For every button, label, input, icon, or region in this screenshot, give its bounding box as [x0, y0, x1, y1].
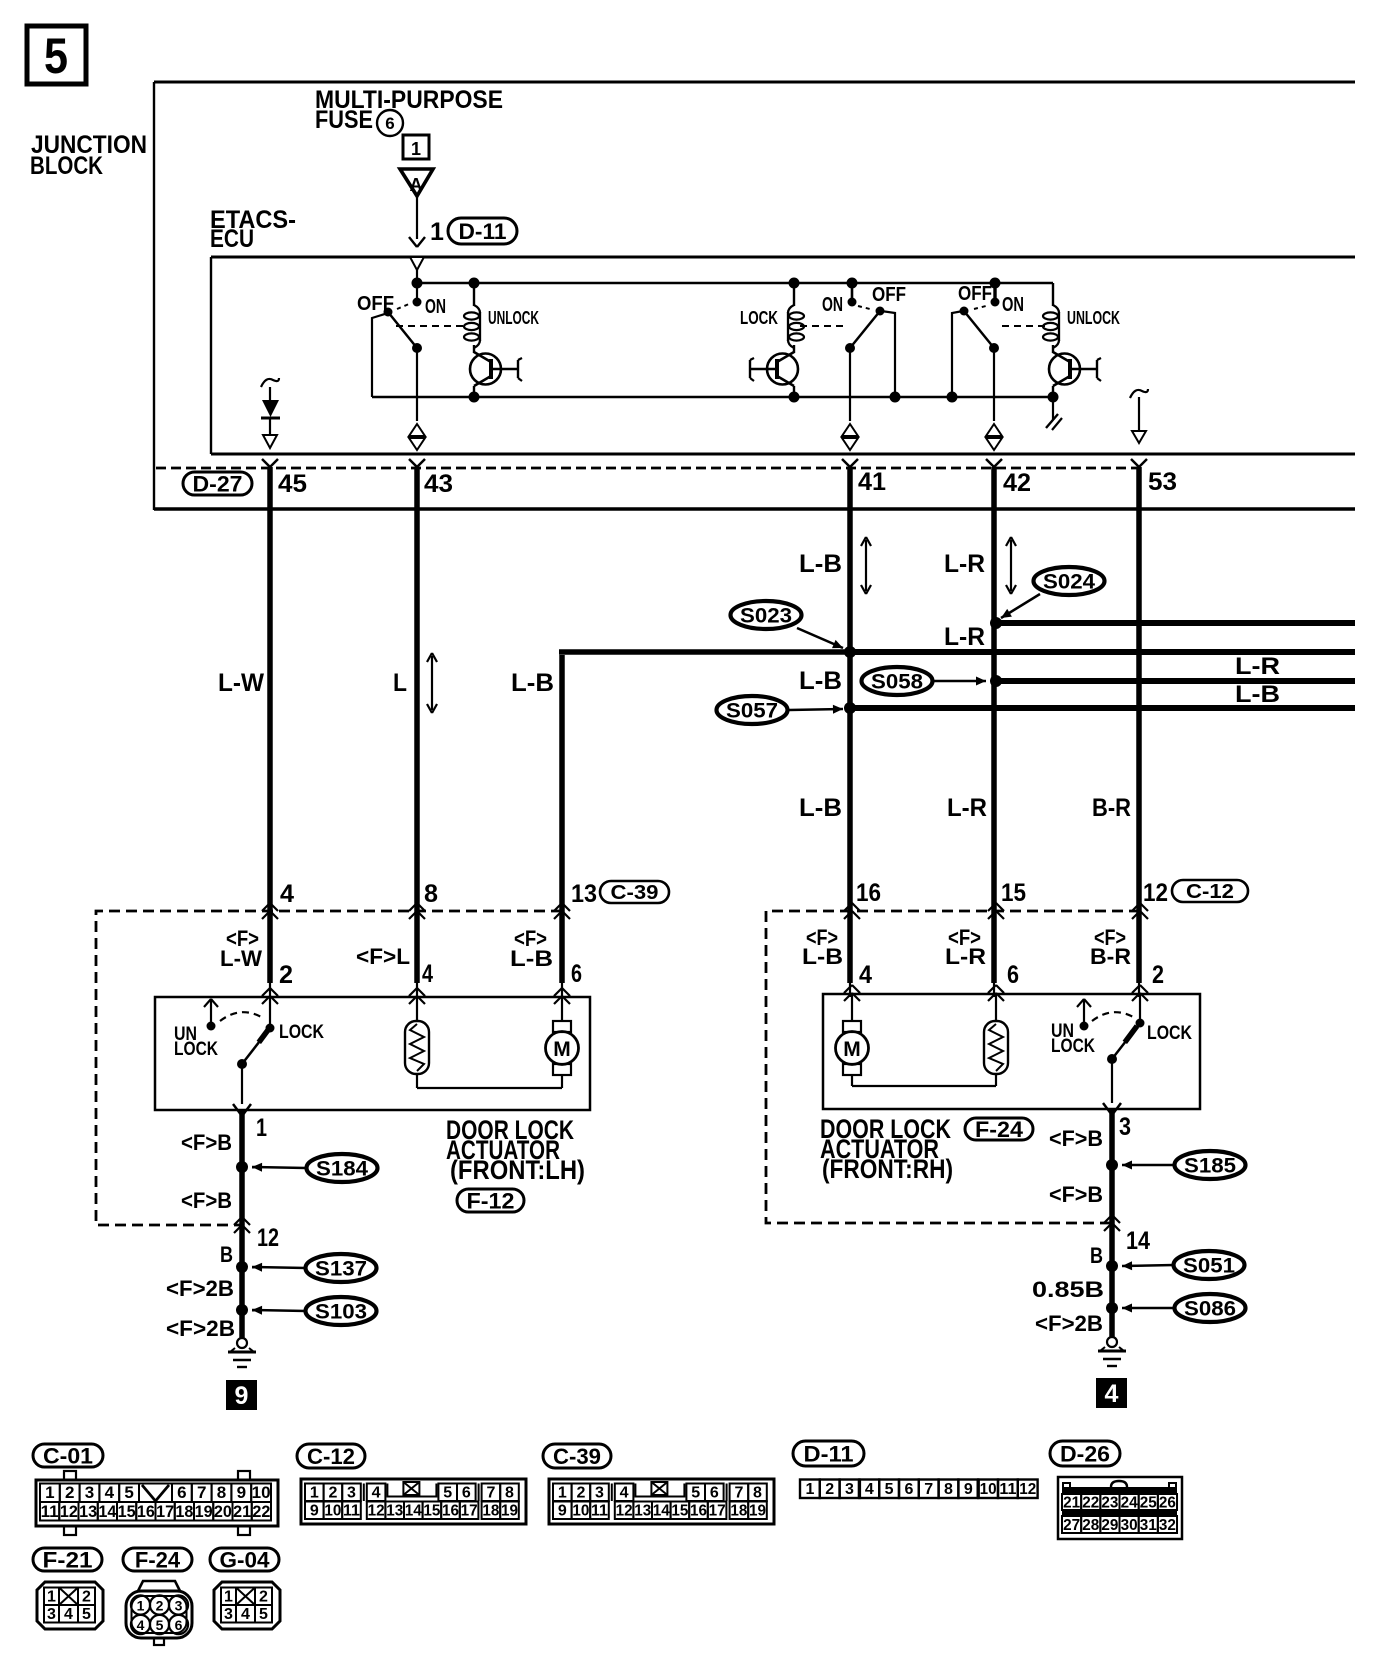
- svg-text:41: 41: [858, 468, 886, 496]
- svg-text:L-B: L-B: [799, 794, 842, 822]
- svg-text:S051: S051: [1183, 1255, 1235, 1278]
- svg-text:ON: ON: [1002, 294, 1024, 316]
- svg-text:LOCK: LOCK: [279, 1022, 324, 1043]
- svg-text:14: 14: [98, 1502, 117, 1521]
- svg-text:2: 2: [1152, 961, 1164, 989]
- svg-text:D-26: D-26: [1060, 1441, 1110, 1466]
- svg-text:5: 5: [156, 1617, 164, 1633]
- svg-text:24: 24: [1121, 1495, 1138, 1512]
- svg-text:8: 8: [944, 1481, 953, 1498]
- svg-text:3: 3: [85, 1483, 94, 1502]
- svg-text:3: 3: [595, 1485, 604, 1502]
- svg-text:ON: ON: [425, 296, 446, 318]
- svg-text:2: 2: [576, 1485, 585, 1502]
- svg-text:L-W: L-W: [218, 669, 264, 697]
- svg-text:13: 13: [571, 880, 597, 908]
- svg-text:5: 5: [124, 1483, 133, 1502]
- svg-text:5: 5: [885, 1481, 894, 1498]
- svg-text:17: 17: [709, 1503, 726, 1520]
- svg-text:10: 10: [980, 1481, 997, 1498]
- svg-text:17: 17: [156, 1502, 174, 1521]
- svg-text:G-04: G-04: [220, 1547, 271, 1572]
- svg-text:2: 2: [156, 1598, 164, 1614]
- svg-text:45: 45: [278, 470, 307, 498]
- svg-text:6: 6: [710, 1485, 719, 1502]
- svg-text:5: 5: [443, 1485, 452, 1502]
- svg-text:F-24: F-24: [975, 1117, 1024, 1142]
- svg-text:C-12: C-12: [307, 1444, 355, 1469]
- svg-text:D-27: D-27: [193, 471, 243, 496]
- svg-text:15: 15: [423, 1503, 440, 1520]
- svg-text:23: 23: [1101, 1495, 1118, 1512]
- svg-text:4: 4: [64, 1606, 73, 1623]
- svg-text:S086: S086: [1184, 1298, 1236, 1321]
- svg-text:29: 29: [1101, 1517, 1118, 1534]
- svg-text:0.85B: 0.85B: [1032, 1277, 1104, 1302]
- svg-text:<F>2B: <F>2B: [166, 1316, 235, 1341]
- svg-text:8: 8: [753, 1485, 762, 1502]
- svg-text:<F>2B: <F>2B: [166, 1276, 234, 1301]
- svg-text:LOCK: LOCK: [740, 308, 778, 328]
- svg-text:6: 6: [177, 1483, 186, 1502]
- svg-text:10: 10: [252, 1483, 271, 1502]
- svg-text:4: 4: [372, 1485, 381, 1502]
- svg-text:9: 9: [235, 1382, 249, 1410]
- svg-text:<F>2B: <F>2B: [1035, 1311, 1103, 1336]
- svg-text:11: 11: [999, 1481, 1016, 1498]
- svg-text:F-12: F-12: [467, 1188, 515, 1213]
- svg-text:8: 8: [217, 1483, 226, 1502]
- svg-text:L-B: L-B: [510, 946, 553, 971]
- svg-text:21: 21: [233, 1502, 251, 1521]
- svg-text:1: 1: [411, 139, 421, 159]
- svg-text:28: 28: [1082, 1517, 1099, 1534]
- svg-text:M: M: [843, 1038, 861, 1061]
- svg-text:7: 7: [197, 1483, 206, 1502]
- svg-text:BLOCK: BLOCK: [30, 152, 103, 180]
- svg-text:<F>B: <F>B: [181, 1130, 232, 1155]
- svg-text:F-24: F-24: [135, 1547, 181, 1572]
- svg-text:15: 15: [118, 1502, 136, 1521]
- svg-text:1: 1: [256, 1114, 267, 1142]
- svg-text:C-39: C-39: [553, 1444, 601, 1469]
- svg-text:LOCK: LOCK: [174, 1039, 218, 1060]
- svg-text:4: 4: [865, 1481, 874, 1498]
- svg-text:6: 6: [462, 1485, 471, 1502]
- svg-text:L-B: L-B: [799, 550, 842, 578]
- svg-text:6: 6: [385, 114, 394, 133]
- svg-text:4: 4: [620, 1485, 629, 1502]
- svg-text:14: 14: [405, 1503, 422, 1520]
- svg-text:8: 8: [424, 880, 438, 908]
- svg-text:D-11: D-11: [459, 219, 507, 244]
- svg-text:A: A: [410, 175, 423, 195]
- svg-text:13: 13: [386, 1503, 403, 1520]
- svg-text:7: 7: [924, 1481, 933, 1498]
- svg-text:3: 3: [845, 1481, 854, 1498]
- svg-text:11: 11: [343, 1503, 360, 1520]
- svg-text:16: 16: [690, 1503, 707, 1520]
- svg-text:1: 1: [47, 1589, 56, 1606]
- svg-text:1: 1: [310, 1485, 319, 1502]
- svg-text:15: 15: [1001, 879, 1026, 907]
- svg-text:L-B: L-B: [802, 944, 843, 969]
- svg-text:2: 2: [328, 1485, 337, 1502]
- svg-text:6: 6: [571, 960, 582, 988]
- svg-text:L-B: L-B: [1235, 681, 1280, 708]
- svg-text:30: 30: [1121, 1517, 1138, 1534]
- svg-text:43: 43: [424, 470, 453, 498]
- svg-text:L-B: L-B: [511, 669, 554, 697]
- svg-text:<F>B: <F>B: [1049, 1126, 1103, 1151]
- svg-text:4: 4: [422, 960, 433, 988]
- svg-text:1: 1: [137, 1598, 145, 1614]
- svg-text:<F>B: <F>B: [1049, 1182, 1103, 1207]
- svg-text:ECU: ECU: [210, 225, 254, 253]
- svg-text:UNLOCK: UNLOCK: [488, 308, 539, 328]
- svg-text:15: 15: [671, 1503, 688, 1520]
- svg-text:6: 6: [1007, 961, 1019, 989]
- svg-text:B-R: B-R: [1092, 794, 1131, 822]
- svg-text:9: 9: [237, 1483, 246, 1502]
- svg-text:12: 12: [1143, 879, 1168, 907]
- svg-text:16: 16: [856, 879, 881, 907]
- svg-text:16: 16: [137, 1502, 155, 1521]
- svg-text:S137: S137: [315, 1258, 367, 1281]
- svg-text:3: 3: [1119, 1113, 1131, 1141]
- svg-text:S057: S057: [726, 700, 778, 723]
- svg-text:2: 2: [82, 1589, 91, 1606]
- svg-text:5: 5: [82, 1606, 91, 1623]
- svg-text:13: 13: [634, 1503, 651, 1520]
- svg-text:12: 12: [1019, 1481, 1036, 1498]
- svg-text:4: 4: [105, 1483, 115, 1502]
- svg-text:L-R: L-R: [947, 794, 987, 822]
- svg-text:32: 32: [1159, 1517, 1176, 1534]
- svg-text:9: 9: [964, 1481, 973, 1498]
- svg-text:1: 1: [558, 1485, 567, 1502]
- svg-text:18: 18: [482, 1503, 499, 1520]
- svg-text:C-39: C-39: [611, 882, 659, 904]
- svg-text:2: 2: [825, 1481, 834, 1498]
- svg-text:9: 9: [310, 1503, 319, 1520]
- svg-text:L-B: L-B: [799, 667, 842, 695]
- svg-text:8: 8: [505, 1485, 514, 1502]
- svg-text:2: 2: [279, 961, 293, 989]
- svg-text:5: 5: [44, 28, 68, 84]
- svg-text:17: 17: [461, 1503, 478, 1520]
- svg-text:12: 12: [616, 1503, 633, 1520]
- svg-text:20: 20: [214, 1502, 232, 1521]
- svg-text:5: 5: [259, 1606, 268, 1623]
- svg-text:LOCK: LOCK: [1147, 1023, 1192, 1044]
- svg-text:18: 18: [175, 1502, 193, 1521]
- svg-text:14: 14: [653, 1503, 670, 1520]
- svg-text:11: 11: [41, 1502, 59, 1521]
- svg-text:<F>B: <F>B: [181, 1188, 232, 1213]
- svg-text:3: 3: [47, 1606, 56, 1623]
- svg-text:7: 7: [486, 1485, 495, 1502]
- svg-text:16: 16: [442, 1503, 459, 1520]
- svg-text:C-12: C-12: [1186, 881, 1234, 903]
- svg-text:B: B: [220, 1242, 233, 1267]
- svg-text:L-R: L-R: [1235, 653, 1280, 680]
- svg-text:ON: ON: [822, 294, 843, 316]
- svg-text:6: 6: [904, 1481, 913, 1498]
- svg-text:OFF: OFF: [872, 284, 906, 306]
- svg-text:6: 6: [175, 1617, 183, 1633]
- svg-text:27: 27: [1063, 1517, 1080, 1534]
- svg-text:4: 4: [859, 961, 872, 989]
- svg-text:(FRONT:LH): (FRONT:LH): [450, 1155, 585, 1185]
- svg-text:L-R: L-R: [944, 623, 985, 651]
- svg-text:4: 4: [1105, 1380, 1119, 1408]
- svg-text:3: 3: [175, 1598, 183, 1614]
- svg-text:S058: S058: [871, 671, 923, 694]
- svg-text:10: 10: [324, 1503, 341, 1520]
- svg-text:UNLOCK: UNLOCK: [1067, 308, 1120, 328]
- svg-text:OFF: OFF: [958, 283, 992, 305]
- svg-text:L: L: [393, 669, 407, 697]
- svg-text:2: 2: [259, 1589, 268, 1606]
- svg-text:S024: S024: [1043, 571, 1095, 594]
- svg-text:(FRONT:RH): (FRONT:RH): [822, 1154, 953, 1184]
- svg-text:M: M: [553, 1038, 571, 1061]
- svg-text:14: 14: [1126, 1227, 1150, 1255]
- svg-text:S184: S184: [316, 1158, 368, 1181]
- svg-text:25: 25: [1140, 1495, 1157, 1512]
- svg-text:1: 1: [45, 1483, 54, 1502]
- svg-text:L-W: L-W: [220, 946, 262, 971]
- svg-text:9: 9: [558, 1503, 567, 1520]
- svg-text:3: 3: [347, 1485, 356, 1502]
- svg-text:LOCK: LOCK: [1051, 1036, 1095, 1057]
- svg-text:19: 19: [195, 1502, 213, 1521]
- svg-text:S103: S103: [315, 1301, 367, 1324]
- svg-text:2: 2: [65, 1483, 74, 1502]
- svg-text:<F>L: <F>L: [356, 944, 410, 969]
- svg-text:19: 19: [501, 1503, 518, 1520]
- svg-text:18: 18: [730, 1503, 747, 1520]
- svg-text:4: 4: [280, 880, 294, 908]
- svg-text:12: 12: [60, 1502, 78, 1521]
- svg-text:1: 1: [224, 1589, 233, 1606]
- svg-text:4: 4: [137, 1617, 145, 1633]
- svg-text:26: 26: [1159, 1495, 1176, 1512]
- svg-text:21: 21: [1063, 1495, 1080, 1512]
- svg-text:B-R: B-R: [1090, 944, 1131, 969]
- svg-text:L-R: L-R: [945, 944, 986, 969]
- svg-text:1: 1: [430, 218, 444, 246]
- svg-text:D-11: D-11: [804, 1441, 854, 1466]
- svg-text:1: 1: [805, 1481, 814, 1498]
- svg-text:B: B: [1090, 1243, 1103, 1268]
- svg-text:FUSE: FUSE: [315, 106, 373, 134]
- svg-text:19: 19: [749, 1503, 766, 1520]
- svg-text:53: 53: [1148, 468, 1177, 496]
- svg-text:S023: S023: [740, 605, 792, 628]
- svg-text:13: 13: [79, 1502, 97, 1521]
- svg-text:11: 11: [591, 1503, 608, 1520]
- svg-text:4: 4: [241, 1606, 250, 1623]
- svg-text:22: 22: [252, 1502, 270, 1521]
- svg-text:5: 5: [691, 1485, 700, 1502]
- svg-text:F-21: F-21: [43, 1547, 93, 1572]
- svg-text:31: 31: [1140, 1517, 1157, 1534]
- svg-text:12: 12: [368, 1503, 385, 1520]
- svg-text:10: 10: [572, 1503, 589, 1520]
- svg-text:42: 42: [1003, 469, 1031, 497]
- svg-text:L-R: L-R: [944, 550, 985, 578]
- svg-text:3: 3: [224, 1606, 233, 1623]
- svg-text:S185: S185: [1184, 1155, 1236, 1178]
- svg-text:22: 22: [1082, 1495, 1099, 1512]
- svg-text:7: 7: [734, 1485, 743, 1502]
- svg-text:C-01: C-01: [43, 1443, 93, 1468]
- svg-text:12: 12: [257, 1224, 279, 1252]
